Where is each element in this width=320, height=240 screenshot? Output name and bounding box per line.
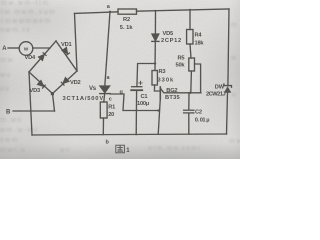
wire left loop vertical to bridge right corner [75,13,78,71]
wire SCR cathode [103,94,106,102]
node gate/B1 junction [157,109,159,111]
wire C2 top lead [188,93,190,110]
wire R1 to bottom rail [102,118,104,135]
wire B2 lead [160,88,201,93]
zener diode DW [224,84,232,93]
diode VD4 arrow [39,52,47,60]
bridge edge L-T with diode VD4 [29,41,56,72]
wire R4 to R5 [190,44,191,58]
node rail R4 junction [189,9,191,11]
wire B1 lead to bottom rail [158,99,160,135]
node B2/C2 junction [189,92,191,94]
wire A input to meter [8,47,19,49]
wire bottom rail [32,134,227,135]
wire SCR anode from node a [105,12,110,86]
wire bridge bottom corner to B line [53,94,55,112]
bridge edge T-R with diode VD1 [56,41,77,71]
bleed-through text artifacts [1,0,50,7]
node rail VD5 junction [155,10,157,12]
wire right border lower [227,93,228,134]
figure caption: tu 1 glyph [116,145,125,153]
diode VD3 arrow [38,81,46,89]
thyristor VS [100,86,110,93]
wire right border upper [228,9,229,86]
wire meter to bridge [33,47,50,49]
node junction C1/R3 [154,62,156,64]
wire R5 bottom [190,71,193,93]
wire R5 wiper [195,64,201,93]
diode VD2 arrow [61,78,69,86]
meter W [19,42,33,56]
wire C2 to bottom rail [188,113,190,134]
wire C1 branch horizontal [137,64,155,87]
resistor R1 [100,102,107,118]
diode VD1 arrow [62,48,70,56]
capacitor C2 [184,109,194,111]
wire VD5 to R3 [154,42,156,71]
wire R3 to emitter [154,85,160,91]
bridge edge R-Bo with diode VD2 [53,71,78,94]
wire top rail right segment [137,9,230,11]
wire top rail left segment [75,12,119,14]
node bridge bottom [51,92,54,95]
wire R4 branch from rail [189,10,191,30]
wire bridge left corner to bottom rail [29,72,32,135]
wire C1 to bottom rail [135,91,137,135]
capacitor C1 [132,86,142,88]
resistor R2 [118,9,137,14]
diode VD5 [152,34,159,41]
resistor R5 potentiometer [189,58,195,71]
wire VD5 branch from top rail [154,11,156,34]
resistor R3 [152,71,157,86]
node a junction [109,11,111,13]
plus sign of C1 [139,81,142,84]
bridge edge L-Bo with diode VD3 [29,72,53,94]
transistor BG2 base bar [159,87,161,99]
resistor R4 [187,30,193,45]
wire B input [13,110,55,112]
wire SCR gate [110,94,158,111]
